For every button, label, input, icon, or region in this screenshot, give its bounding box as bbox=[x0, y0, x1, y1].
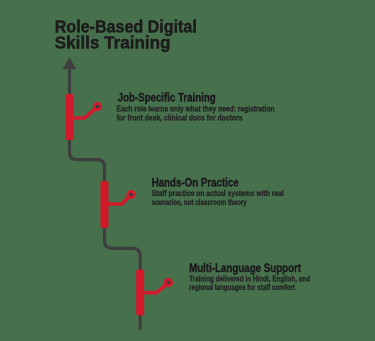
svg-text:Each role learns only what the: Each role learns only what they need: re… bbox=[117, 105, 275, 114]
svg-text:Job-Specific Training: Job-Specific Training bbox=[118, 90, 216, 104]
connector 3 bbox=[144, 283, 168, 293]
wire bbox=[70, 94, 141, 330]
svg-text:Staff practice on actual syste: Staff practice on actual systems with re… bbox=[152, 189, 284, 198]
label 2 description bbox=[152, 189, 284, 207]
ring 1 bbox=[93, 102, 102, 111]
pill 1 bbox=[66, 94, 74, 140]
title bbox=[55, 16, 197, 52]
pill 2 bbox=[101, 181, 109, 228]
connector 1 bbox=[74, 107, 98, 118]
pill 3 bbox=[136, 270, 144, 316]
label 3 description bbox=[189, 274, 310, 292]
ring 2 bbox=[126, 190, 135, 199]
label 1 description bbox=[117, 105, 275, 123]
svg-text:Skills Training: Skills Training bbox=[55, 32, 171, 52]
svg-text:Multi-Language Support: Multi-Language Support bbox=[189, 261, 301, 275]
svg-text:Hands-On Practice: Hands-On Practice bbox=[152, 176, 239, 190]
ring 3 bbox=[164, 278, 173, 287]
connector 2 bbox=[109, 195, 132, 205]
svg-text:scenarios, not classroom theor: scenarios, not classroom theory bbox=[152, 198, 247, 207]
svg-text:regional languages for staff c: regional languages for staff comfort bbox=[189, 283, 295, 292]
svg-text:for front desk, clinical docs: for front desk, clinical docs for doctor… bbox=[117, 113, 243, 122]
arrow bbox=[63, 58, 77, 96]
